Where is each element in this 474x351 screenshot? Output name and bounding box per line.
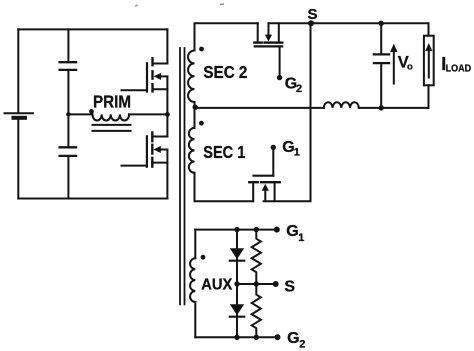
wire: center tap to output inductor: [195, 107, 324, 109]
svg-text:PRIM: PRIM: [93, 92, 131, 112]
wire: inductor to output bottom rail: [359, 107, 429, 109]
wire: AUX left lower: [194, 302, 196, 337]
wire: PRIM to half-bridge midpoint: [129, 113, 167, 115]
node: diode branch middle junction: [234, 281, 239, 286]
node: output cap bottom junction: [379, 105, 384, 110]
transistor U3 sync rectifier (SEC1): [249, 150, 279, 201]
wire: primary loop bottom: [18, 198, 167, 200]
wire: S middle rail: [237, 283, 276, 285]
svg-text:G: G: [287, 330, 299, 347]
node: SEC1 phase dot: [199, 121, 204, 126]
arrow: load current: [425, 43, 432, 78]
transistor U2 sync rectifier (SEC2): [254, 23, 282, 75]
svg-text:LOAD: LOAD: [446, 64, 472, 75]
node: resistor branch bottom junction: [254, 335, 259, 340]
resistor RLOAD load box: [424, 36, 434, 86]
wire: capacitor branch middle: [67, 70, 69, 147]
node: G1 gate terminal dot: [271, 145, 276, 150]
wire: AUX left upper: [194, 230, 196, 259]
node: SEC2 phase dot: [199, 47, 204, 52]
wire: S vertical to lower sync FET: [264, 23, 311, 201]
node: diode branch top junction: [234, 227, 239, 232]
capacitor C1: [60, 62, 77, 70]
wire: capacitor branch top: [67, 29, 69, 62]
wire: AUX top rail: [195, 229, 276, 231]
wire: SEC1 bottom lead: [195, 173, 254, 201]
svg-text:AUX: AUX: [201, 277, 232, 294]
node: diode branch bottom junction: [234, 335, 239, 340]
winding AUX: [190, 258, 195, 302]
node: cap midpoint junction: [66, 112, 71, 117]
wire: diode branch: [236, 230, 238, 338]
scan speck right: [220, 3, 224, 5]
arrow: Vo: [390, 44, 397, 84]
winding SEC 1: [189, 128, 195, 173]
svg-text:G: G: [286, 223, 298, 240]
svg-text:o: o: [407, 62, 413, 73]
wire: S rail: [269, 22, 429, 24]
node: output cap top junction: [379, 21, 384, 26]
wire: right edge lower: [428, 85, 430, 108]
core: transformer core T1: [180, 48, 185, 304]
inductor: PRIM winding: [93, 114, 130, 120]
resistor R2: [252, 284, 261, 337]
node: resistor branch top junction: [254, 227, 259, 232]
inductor L1 output filter: [324, 102, 359, 108]
svg-text:1: 1: [298, 232, 304, 244]
transistor Q1 upper primary MOSFET: [122, 29, 168, 136]
node: G1 terminal: [274, 227, 280, 233]
diode D1: [230, 248, 244, 260]
wire: AUX bottom rail: [195, 336, 277, 338]
wire: SEC2 bottom to center tap: [194, 102, 196, 108]
core: PRIM core bars: [93, 125, 131, 131]
node: half-bridge midpoint junction: [165, 112, 170, 117]
wire: SEC2 top lead: [195, 23, 258, 50]
node: PRIM phase dot: [89, 109, 94, 114]
wire: output cap branch upper: [380, 23, 382, 54]
wire: output cap branch lower: [380, 63, 382, 108]
node: resistor branch middle junction: [254, 281, 259, 286]
wire: primary loop left upper: [17, 29, 19, 112]
capacitor C2: [60, 147, 77, 156]
svg-text:2: 2: [299, 339, 305, 351]
node: AUX phase dot: [201, 255, 206, 260]
svg-text:S: S: [284, 278, 295, 295]
svg-text:SEC 2: SEC 2: [203, 62, 247, 82]
battery B1: [5, 113, 33, 118]
scan speck left: [135, 4, 138, 7]
node: S terminal: [273, 281, 279, 287]
wire: capacitor branch bottom: [67, 156, 69, 199]
svg-text:1: 1: [294, 147, 300, 159]
wire: primary loop top: [18, 28, 167, 30]
transistor Q2 lower primary MOSFET: [122, 133, 168, 199]
node: G2 terminal: [275, 334, 281, 340]
node: center tap junction: [193, 105, 198, 110]
wire: primary loop left lower: [17, 120, 19, 199]
resistor R1: [252, 230, 261, 284]
svg-text:2: 2: [296, 83, 302, 95]
wire: cap midpoint to PRIM: [68, 113, 92, 115]
svg-text:S: S: [308, 6, 318, 23]
diode D2: [230, 304, 244, 316]
node S: [308, 20, 314, 26]
wire: SEC1 top lead: [194, 108, 196, 128]
wire: right edge upper: [428, 23, 430, 35]
capacitor C3 output: [374, 54, 389, 63]
svg-text:SEC 1: SEC 1: [203, 142, 245, 162]
winding SEC 2: [188, 51, 194, 103]
node: G2 gate terminal dot: [277, 75, 282, 80]
